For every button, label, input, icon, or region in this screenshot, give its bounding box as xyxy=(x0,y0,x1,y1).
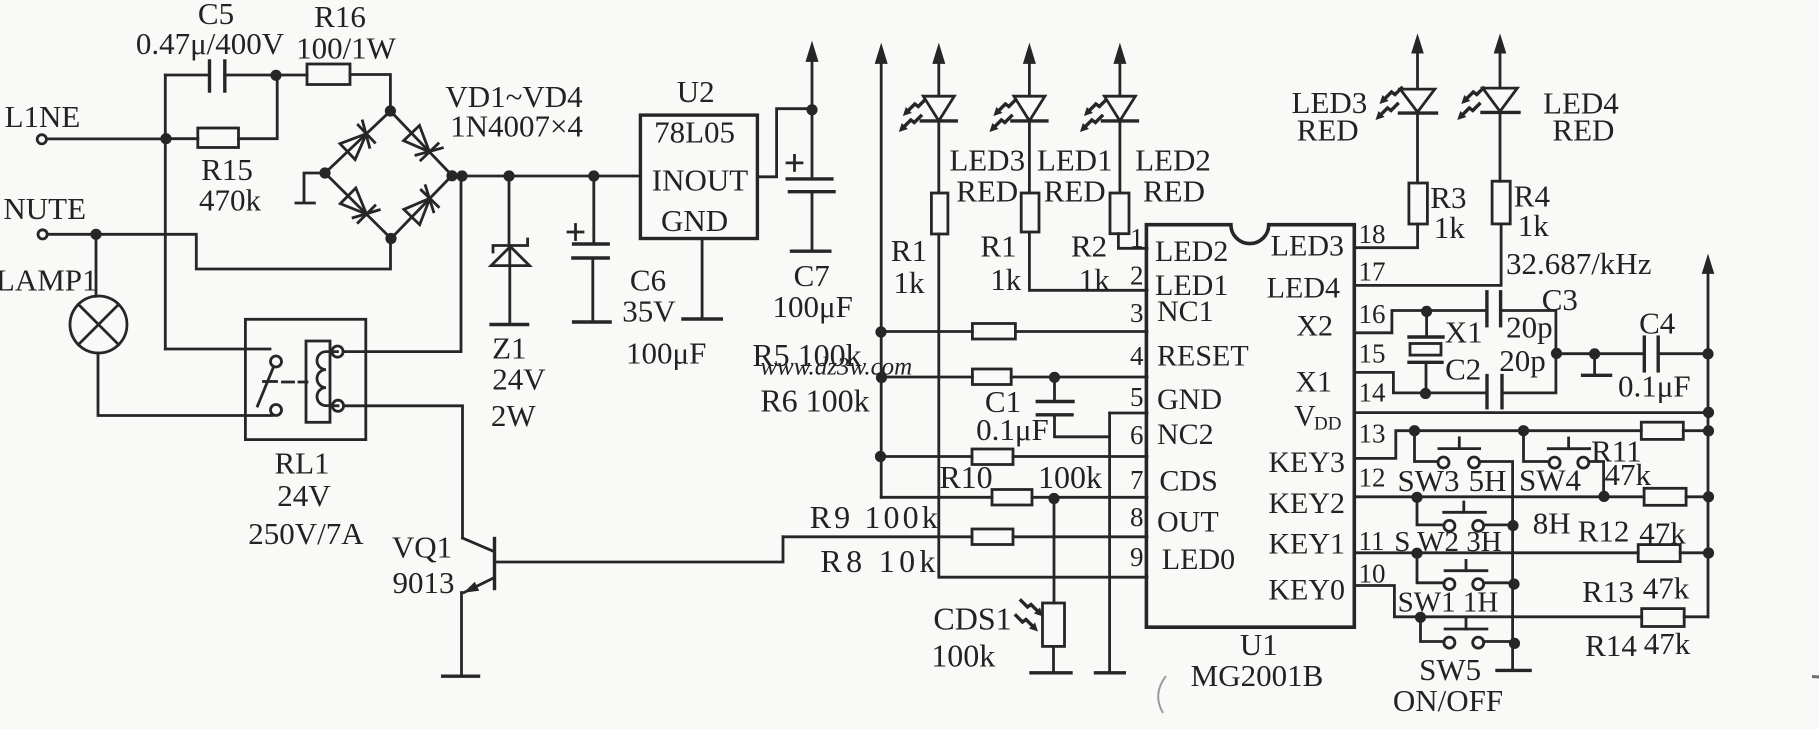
svg-text:SW1 1H: SW1 1H xyxy=(1398,587,1499,619)
ground middle rail xyxy=(1096,671,1125,674)
svg-text:GND: GND xyxy=(1157,383,1222,416)
junction R13/rail xyxy=(1703,547,1714,558)
svg-text:DD: DD xyxy=(1314,414,1341,435)
junction SW1/column xyxy=(1508,579,1519,590)
wire R12 to rail xyxy=(1686,495,1708,498)
svg-text:1: 1 xyxy=(1130,223,1144,253)
switch SW2 xyxy=(1444,502,1486,531)
relay switch blade tick xyxy=(264,380,277,383)
capacitor C1 xyxy=(1037,402,1073,415)
wire VQ1 emitter down xyxy=(460,593,463,677)
wire SW2 right to ground column xyxy=(1484,524,1513,527)
wire node A to R16 xyxy=(276,74,307,77)
light arrows into CDS1 xyxy=(1021,601,1043,617)
wire C1 top lead xyxy=(1053,377,1056,402)
junction bus1/R5 xyxy=(875,326,886,337)
resistor R4 xyxy=(1492,181,1510,224)
wire SW4 left branch xyxy=(1524,431,1550,462)
wire R3 to IC pin18 xyxy=(1354,224,1417,248)
junction SW3 branch xyxy=(1409,425,1420,436)
svg-text:78L05: 78L05 xyxy=(654,115,735,150)
wire pin3 line left xyxy=(881,330,972,333)
wire R15 up to node A xyxy=(239,75,278,138)
crystal X1 xyxy=(1409,311,1443,393)
svg-text:LED2: LED2 xyxy=(1135,143,1211,178)
junction CDS1 top xyxy=(1048,493,1059,504)
wire pin10 line xyxy=(1354,586,1641,617)
scan artifact arc xyxy=(1158,676,1166,713)
wire top row to C5 xyxy=(165,74,209,77)
wire pin8 line right xyxy=(1013,535,1147,538)
svg-text:SW3: SW3 xyxy=(1398,463,1460,498)
wire ground branch xyxy=(1593,354,1596,374)
wire C6 lead xyxy=(592,176,595,244)
wire NUTE to junction xyxy=(48,233,96,236)
junction SW4/pin12 xyxy=(1598,491,1609,502)
relay coil top terminal xyxy=(332,346,343,357)
svg-text:1k: 1k xyxy=(990,262,1022,297)
capacitor C7 xyxy=(787,179,834,192)
junction C1 top xyxy=(1049,372,1060,383)
resistor R11 xyxy=(1641,422,1683,439)
wire LED1 to R1 xyxy=(1028,121,1031,193)
wire U2 output to +5V node xyxy=(757,109,812,177)
wire pin11 line xyxy=(1354,551,1638,554)
svg-text:SW5: SW5 xyxy=(1419,652,1481,687)
power arrow LED2 branch xyxy=(1113,43,1126,64)
wire bridge edge bottom-left xyxy=(325,173,391,239)
svg-text:LED2: LED2 xyxy=(1155,235,1228,268)
junction C6 branch xyxy=(588,170,599,181)
svg-text:24V: 24V xyxy=(492,361,546,396)
switch SW4 xyxy=(1548,438,1589,468)
resistor R14 xyxy=(1642,609,1685,627)
light arrows LED3 (right) xyxy=(1380,88,1402,104)
svg-text:1k: 1k xyxy=(1079,262,1111,297)
resistor R12 xyxy=(1644,488,1686,505)
junction R11/rail xyxy=(1703,425,1714,436)
junction C2/C3 xyxy=(1551,348,1562,359)
junction relay feed xyxy=(456,170,467,181)
svg-text:MG2001B: MG2001B xyxy=(1191,658,1324,693)
svg-text:RED: RED xyxy=(1297,113,1359,148)
light arrows LED2 xyxy=(1084,100,1106,116)
relay coil winding xyxy=(317,352,338,406)
wire LAMP1 to relay switch bottom xyxy=(98,353,272,416)
svg-text:2W: 2W xyxy=(491,398,537,433)
junction L1NE node xyxy=(160,133,171,144)
ground Z1 xyxy=(491,323,527,326)
relay switch top contact xyxy=(271,356,282,367)
wire R13 to rail xyxy=(1680,551,1708,554)
wire junction to C4 xyxy=(1557,352,1645,355)
svg-text:GND: GND xyxy=(661,203,728,238)
wire Z1 to ground xyxy=(508,266,511,324)
wire NUTE node to bridge bottom xyxy=(96,234,391,269)
power arrow bus1 xyxy=(875,43,888,64)
svg-text:R16: R16 xyxy=(314,0,366,34)
scan artifact dash xyxy=(1812,675,1819,679)
wire L1NE to junction xyxy=(47,137,166,140)
junction bus1/R6 xyxy=(876,372,887,383)
svg-text:13: 13 xyxy=(1359,419,1386,449)
svg-text:1k: 1k xyxy=(1518,208,1550,243)
power arrow LED1 branch xyxy=(1023,43,1036,64)
svg-text:10: 10 xyxy=(1359,559,1386,589)
wire SW5 right to ground column xyxy=(1484,640,1513,643)
svg-text:100k: 100k xyxy=(1038,459,1102,495)
junction X1 top xyxy=(1421,306,1432,317)
diode VD2 (top-right arm) xyxy=(403,125,442,165)
wire pin6 line right xyxy=(1013,455,1147,458)
svg-text:ON/OFF: ON/OFF xyxy=(1393,683,1503,718)
wire R11 to rail xyxy=(1683,429,1708,432)
svg-text:17: 17 xyxy=(1359,257,1386,287)
svg-text:RED: RED xyxy=(1552,113,1614,148)
svg-text:L1NE: L1NE xyxy=(5,99,81,134)
resistor R1 (LED3) xyxy=(931,193,948,234)
wire R1 to IC pin2 xyxy=(1029,232,1147,290)
svg-text:C2: C2 xyxy=(1445,351,1481,386)
svg-text:NUTE: NUTE xyxy=(3,191,86,226)
junction X1 bottom xyxy=(1420,388,1431,399)
svg-text:LED3: LED3 xyxy=(1271,229,1344,262)
svg-text:15: 15 xyxy=(1359,339,1386,369)
wire pin5 GND jog xyxy=(1110,412,1147,415)
capacitor C2 xyxy=(1487,376,1502,408)
svg-text:NC1: NC1 xyxy=(1157,295,1214,328)
wire SW2 left branch xyxy=(1417,497,1444,525)
svg-text:R1: R1 xyxy=(980,228,1016,263)
junction +5V node xyxy=(806,104,817,115)
wire bridge edge top-left xyxy=(325,111,390,173)
svg-text:X1: X1 xyxy=(1295,366,1332,399)
zener Z1 xyxy=(491,239,529,266)
regulator U2 box xyxy=(640,115,757,238)
svg-text:250V/7A: 250V/7A xyxy=(248,516,364,551)
wire SW1 right to ground column xyxy=(1484,581,1513,584)
wire bridge edge top-right xyxy=(390,111,452,176)
wire pin12 line xyxy=(1354,495,1644,498)
svg-text:OUT: OUT xyxy=(1157,506,1219,539)
svg-text:RESET: RESET xyxy=(1157,340,1249,373)
svg-text:SW4: SW4 xyxy=(1519,463,1582,498)
svg-text:20p: 20p xyxy=(1506,310,1553,345)
svg-text:Z1: Z1 xyxy=(492,331,526,366)
svg-text:LED4: LED4 xyxy=(1267,272,1340,305)
junction bus1/pin6 line xyxy=(875,451,886,462)
wire middle ground vertical xyxy=(1108,413,1111,672)
junction SW5/column xyxy=(1509,638,1520,649)
svg-text:47k: 47k xyxy=(1643,571,1690,606)
svg-text:C6: C6 xyxy=(630,263,666,298)
svg-text:47k: 47k xyxy=(1604,457,1651,492)
diode VD4 (bottom-right arm) xyxy=(403,186,443,226)
resistor R5 xyxy=(972,324,1015,340)
junction bridge left vertex xyxy=(319,167,330,178)
svg-text:R2: R2 xyxy=(1071,228,1107,263)
capacitor C5 xyxy=(210,61,225,91)
wire bridge left stub xyxy=(304,173,325,202)
power arrow +5V xyxy=(806,41,819,62)
wire pin16 to C3 xyxy=(1354,311,1487,333)
svg-text:1N4007×4: 1N4007×4 xyxy=(450,109,583,144)
svg-text:INOUT: INOUT xyxy=(652,163,748,198)
relay link dashes xyxy=(283,381,308,384)
light arrows LED4 (right) xyxy=(1461,88,1483,104)
wire pin4 line right xyxy=(1011,376,1147,379)
svg-text:CDS1: CDS1 xyxy=(933,601,1011,637)
wire LED4 to R4 xyxy=(1499,112,1502,181)
svg-text:RED: RED xyxy=(956,173,1018,208)
ground (crystal net) xyxy=(1583,374,1611,377)
resistor R3 xyxy=(1409,183,1428,224)
power arrow LED3 (right) xyxy=(1411,33,1424,53)
wire R14 to rail xyxy=(1684,615,1708,618)
wire C6 to ground xyxy=(591,258,594,321)
svg-text:LED3: LED3 xyxy=(949,143,1025,178)
svg-text:U2: U2 xyxy=(677,74,715,109)
svg-text:5: 5 xyxy=(1130,382,1144,412)
junction Z1 branch xyxy=(503,170,514,181)
relay coil bottom terminal xyxy=(332,400,343,411)
capacitor C4 xyxy=(1644,337,1658,371)
svg-text:R13: R13 xyxy=(1582,574,1634,609)
svg-text:9013: 9013 xyxy=(393,565,455,600)
svg-text:X2: X2 xyxy=(1296,310,1333,343)
wire bridge edge bottom-right xyxy=(391,176,452,239)
switch SW5 xyxy=(1444,619,1487,648)
light arrows LED3 xyxy=(903,100,925,116)
wire SW4 right to pin12 line xyxy=(1589,462,1604,495)
svg-text:8H: 8H xyxy=(1533,506,1571,541)
svg-text:1k: 1k xyxy=(894,265,926,300)
wire VDD long line (pin14) xyxy=(1354,411,1708,414)
power arrow VDD rail xyxy=(1702,254,1715,274)
svg-text:100μF: 100μF xyxy=(626,336,706,371)
wire C3 to junction xyxy=(1501,311,1556,354)
wire SW1 left branch xyxy=(1417,553,1444,583)
transistor VQ1 xyxy=(463,538,495,593)
ground switch column xyxy=(1497,669,1530,672)
op-amp U1 box xyxy=(1146,225,1354,628)
wire VDD rail vertical xyxy=(1707,272,1710,617)
polarity + C7 xyxy=(787,155,802,170)
svg-text:KEY2: KEY2 xyxy=(1268,487,1345,520)
svg-text:NC2: NC2 xyxy=(1157,418,1214,451)
svg-text:0.1μF: 0.1μF xyxy=(1618,369,1691,404)
wire C2 to junction xyxy=(1502,353,1556,393)
resistor R13 xyxy=(1638,545,1680,562)
junction SW2/column xyxy=(1507,520,1518,531)
svg-text:RED: RED xyxy=(1044,173,1106,208)
svg-text:20p: 20p xyxy=(1499,343,1546,378)
LED LED3 (right) xyxy=(1400,51,1437,113)
wire pin7 line left xyxy=(881,496,992,499)
resistor R8 xyxy=(972,529,1013,545)
wire R4 to IC pin17 xyxy=(1354,224,1501,285)
svg-text:KEY0: KEY0 xyxy=(1268,574,1345,607)
svg-text:R6 100k: R6 100k xyxy=(760,383,869,419)
power arrow LED3 branch xyxy=(932,43,945,64)
svg-text:0.1μF: 0.1μF xyxy=(976,412,1049,447)
svg-text:KEY1: KEY1 xyxy=(1268,528,1345,561)
switch SW1 xyxy=(1444,560,1487,589)
LED LED3 (mid) xyxy=(921,61,956,121)
svg-text:18: 18 xyxy=(1359,219,1386,249)
LED LED4 (right) xyxy=(1482,51,1519,112)
svg-text:U1: U1 xyxy=(1240,627,1278,662)
svg-text:5H: 5H xyxy=(1469,463,1507,498)
wire L1NE node to R15 xyxy=(166,137,198,140)
svg-text:0.47μ/400V: 0.47μ/400V xyxy=(136,26,285,61)
svg-text:32.687/kHz: 32.687/kHz xyxy=(1506,246,1652,281)
resistor R10 xyxy=(992,490,1032,506)
relay switch blade xyxy=(258,367,274,406)
svg-text:R10: R10 xyxy=(939,459,992,495)
wire VQ1 base to R8 line xyxy=(495,537,784,562)
svg-text:8: 8 xyxy=(1130,502,1144,532)
svg-text:C7: C7 xyxy=(794,258,830,293)
svg-text:14: 14 xyxy=(1359,378,1387,408)
resistor on pin6 line xyxy=(972,449,1013,465)
svg-text:4: 4 xyxy=(1130,341,1144,371)
wire SW3 left branch xyxy=(1415,431,1439,462)
ground CDS1 xyxy=(1031,671,1071,674)
diode VD1 (top-left arm) xyxy=(339,121,379,160)
wire pin15 to C2 xyxy=(1354,372,1487,393)
svg-text:LAMP1: LAMP1 xyxy=(0,262,98,297)
wire Z1 lead xyxy=(508,176,511,243)
svg-text:LED0: LED0 xyxy=(1162,543,1235,576)
junction bridge bottom vertex xyxy=(385,233,396,244)
wire C1 bottom to ground rail xyxy=(1055,415,1110,437)
wire R2 to IC pin1 xyxy=(1118,234,1147,249)
svg-text:2: 2 xyxy=(1130,261,1144,291)
relay RL1 outer box xyxy=(245,319,365,439)
svg-text:7: 7 xyxy=(1130,465,1144,495)
wire LED3 to R3 xyxy=(1416,113,1419,183)
svg-text:V: V xyxy=(1294,400,1316,433)
switch SW3 xyxy=(1438,438,1480,468)
node NUTE terminal xyxy=(38,230,47,239)
LED LED1 (mid) xyxy=(1012,61,1047,121)
wire pin8 line left xyxy=(783,535,972,538)
ground VQ1 emitter xyxy=(443,675,479,678)
junction SW1 branch xyxy=(1411,548,1422,559)
wire C5 to node A xyxy=(225,74,276,77)
svg-text:X1: X1 xyxy=(1445,314,1483,349)
wire LED3 to R1 xyxy=(937,121,940,193)
resistor R6 xyxy=(972,369,1011,385)
capacitor C3 xyxy=(1487,292,1501,326)
ground C6 xyxy=(574,320,611,323)
node L1NE terminal xyxy=(37,135,46,144)
svg-text:LED1: LED1 xyxy=(1037,143,1113,178)
relay coil frame xyxy=(306,341,330,422)
wire SW3 right to ground column xyxy=(1480,462,1513,669)
wire CDS1 lead xyxy=(1053,499,1056,604)
polarity + C6 xyxy=(568,225,583,240)
photoresistor CDS1 xyxy=(1043,603,1065,646)
svg-text:CDS: CDS xyxy=(1159,465,1217,498)
svg-text:R9 100k: R9 100k xyxy=(810,499,938,535)
wire U2 GND pin xyxy=(701,239,704,318)
junction C4 ground branch xyxy=(1589,348,1600,359)
wire pin4 line left xyxy=(882,376,973,379)
wire pin6 line left xyxy=(881,455,973,458)
wire C7 lead xyxy=(811,110,814,179)
LED LED2 (mid) xyxy=(1102,61,1137,121)
svg-text:RL1: RL1 xyxy=(274,446,329,481)
svg-text:R1: R1 xyxy=(891,233,927,268)
wire pin13 line xyxy=(1354,431,1641,459)
svg-text:KEY3: KEY3 xyxy=(1268,446,1345,479)
junction C4/VDD rail xyxy=(1702,348,1713,359)
wire +5V arrow stem xyxy=(811,59,814,110)
svg-text:RED: RED xyxy=(1143,173,1205,208)
wire +rail bridge to U2 xyxy=(452,175,640,178)
svg-text:1k: 1k xyxy=(1434,210,1466,245)
wire L1NE branch to relay switch top xyxy=(165,348,270,351)
junction bridge top vertex xyxy=(385,105,396,116)
svg-text:R14: R14 xyxy=(1585,628,1637,663)
wire R16 to bridge top xyxy=(350,75,390,112)
svg-text:100k: 100k xyxy=(931,638,995,674)
wire pin7 line right xyxy=(1032,496,1147,499)
resistor R16 xyxy=(307,64,350,85)
wire LED2 to R2 xyxy=(1119,121,1122,193)
svg-text:VQ1: VQ1 xyxy=(392,530,452,565)
capacitor C6 xyxy=(573,244,608,258)
svg-text:24V: 24V xyxy=(277,478,331,513)
junction SW4 branch xyxy=(1518,425,1529,436)
ground C7 xyxy=(792,249,830,252)
resistor R15 xyxy=(198,128,239,148)
lamp LAMP1 xyxy=(70,239,127,353)
diode VD3 (bottom-left arm) xyxy=(340,187,380,227)
junction bridge right vertex xyxy=(446,170,457,181)
svg-text:R12: R12 xyxy=(1578,514,1630,549)
svg-text:12: 12 xyxy=(1359,463,1386,493)
wire relay coil top to +24V rail xyxy=(343,176,461,352)
wire C7 to ground xyxy=(811,192,814,250)
junction NUTE node xyxy=(90,229,101,240)
wire rail2 down to pin9 xyxy=(939,234,1147,577)
wire bus1 vertical xyxy=(880,61,883,497)
light arrows LED1 xyxy=(993,100,1015,116)
svg-text:9: 9 xyxy=(1130,542,1144,572)
ground U2 xyxy=(683,317,721,320)
node left stub bar xyxy=(296,202,315,205)
resistor R2 xyxy=(1110,193,1129,234)
relay switch bottom contact xyxy=(271,405,282,416)
wire relay coil bottom to VQ1 collector xyxy=(344,406,463,538)
svg-text:470k: 470k xyxy=(199,183,262,218)
svg-text:100μF: 100μF xyxy=(773,289,853,324)
wire C4 to VDD rail xyxy=(1658,352,1708,355)
junction node A (C5/R15/R16) xyxy=(270,70,281,81)
junction VDD line/rail xyxy=(1703,407,1714,418)
svg-text:6: 6 xyxy=(1130,420,1144,450)
svg-text:16: 16 xyxy=(1359,299,1386,329)
wire CDS1 to ground xyxy=(1052,646,1055,671)
wire SW5 left branch xyxy=(1421,617,1444,641)
svg-text:100/1W: 100/1W xyxy=(296,31,397,66)
svg-text:3: 3 xyxy=(1130,298,1144,328)
svg-text:C4: C4 xyxy=(1639,306,1676,341)
wire pin3 line right xyxy=(1015,330,1147,333)
